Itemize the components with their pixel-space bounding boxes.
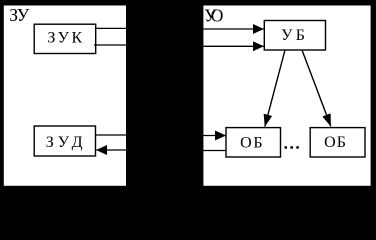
block ОБ (left) (226, 128, 281, 157)
wire ЗУД→edge (y=135) (96, 134, 127, 136)
wire edge→ОБ with arrowhead (y=135.5) (203, 135, 225, 137)
svg-text:УО: УО (204, 6, 223, 26)
block ЗУД (34, 126, 95, 156)
panel UO (right white panel) (203, 6, 370, 186)
wire edge→ЗУД with arrowhead (y=150) (96, 149, 126, 151)
wire edge→УБ lower with arrowhead (203, 45, 263, 47)
svg-text:ЗУК: ЗУК (47, 30, 82, 47)
block ОБ (right) (310, 128, 365, 157)
wire ЗУК→edge lower (94, 44, 126, 46)
wire УБ→ОБ right diagonal with arrowhead (302, 50, 331, 126)
label ellipsis between ОБ blocks (285, 146, 299, 149)
svg-text:ЗУ: ЗУ (9, 5, 30, 25)
block УБ (264, 21, 325, 51)
wire УБ→ОБ left diagonal with arrowhead (265, 50, 285, 127)
svg-text:ОБ: ОБ (240, 134, 262, 151)
svg-text:ОБ: ОБ (324, 134, 346, 151)
wire edge→УБ upper with arrowhead (203, 28, 263, 30)
block ЗУК (34, 24, 95, 53)
wire edge→ОБ plain (y=150.5) (203, 150, 226, 152)
panel ZU (left white panel) (4, 6, 126, 186)
svg-text:ЗУД: ЗУД (46, 134, 83, 151)
wire ЗУК→edge upper (96, 27, 127, 29)
